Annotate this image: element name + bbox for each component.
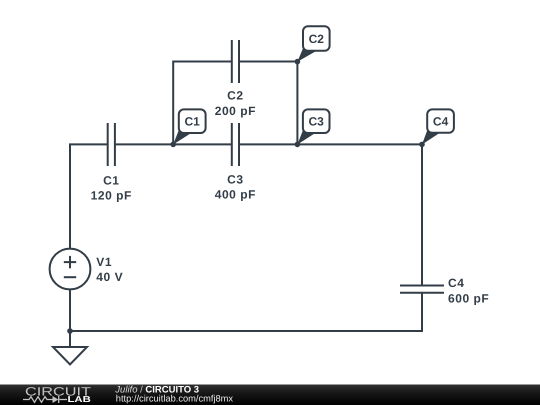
svg-text:http://circuitlab.com/cmfj8mx: http://circuitlab.com/cmfj8mx: [116, 394, 234, 404]
svg-text:C2: C2: [227, 88, 243, 102]
svg-text:C3: C3: [309, 115, 325, 129]
svg-text:C1: C1: [185, 115, 201, 129]
wire: top branch left (node C1 up and right to C2 plate): [173, 62, 232, 145]
label C3 value: [215, 173, 256, 202]
capacitor C4: [400, 286, 444, 293]
svg-text:V1: V1: [96, 255, 112, 269]
svg-text:C2: C2: [309, 32, 325, 46]
node C3: [295, 109, 330, 147]
svg-text:120 pF: 120 pF: [91, 189, 132, 203]
ground: [53, 347, 87, 365]
svg-text:C4: C4: [433, 115, 449, 129]
node C1: [170, 109, 205, 147]
label C2 value: [215, 88, 256, 118]
svg-text:C1: C1: [103, 173, 119, 187]
svg-text:C4: C4: [448, 276, 464, 290]
svg-text:600 pF: 600 pF: [448, 291, 489, 305]
wire: left rail from main net down to V1 top: [70, 144, 108, 248]
capacitor C3: [232, 123, 239, 166]
svg-text:200 pF: 200 pF: [215, 104, 256, 118]
capacitor C2: [232, 40, 239, 83]
wire: main net segment between C1 and C3: [115, 143, 232, 145]
node C2: [295, 26, 330, 64]
node C4: [419, 109, 454, 147]
watermark logo CIRCUIT LAB: [23, 384, 92, 404]
wire: top branch right (C2 plate to node C2 and down to node C3): [239, 62, 297, 145]
svg-text:400 pF: 400 pF: [215, 188, 256, 202]
wire: V1 bottom to ground junction and ground stub: [69, 289, 71, 347]
capacitor C1: [108, 123, 115, 166]
label V1 value: [96, 255, 123, 284]
watermark title text: [114, 385, 233, 404]
label C4 value: [448, 276, 489, 305]
label C1 value: [91, 173, 132, 202]
voltage source V1: [50, 249, 91, 290]
junction: ground node at V1 bottom: [67, 328, 73, 334]
svg-text:40 V: 40 V: [96, 270, 123, 284]
svg-text:C3: C3: [227, 173, 243, 187]
wire: right rail below C4 and bottom return wire: [70, 293, 422, 331]
svg-text:LAB: LAB: [68, 394, 91, 404]
watermark bar: [0, 385, 540, 405]
wire: main net segment from C3 to node C4 and down right rail to C4 top plate: [239, 144, 422, 285]
